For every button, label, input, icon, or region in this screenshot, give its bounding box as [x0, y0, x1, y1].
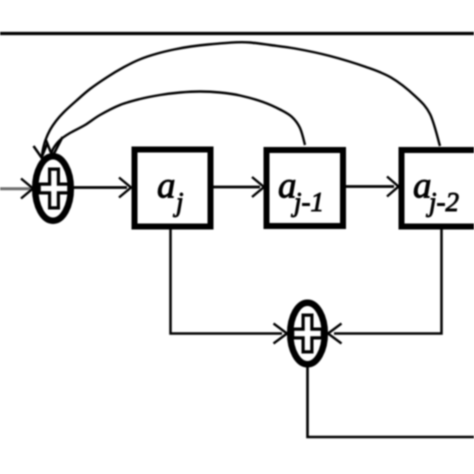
arrowhead into bottom adder left	[274, 324, 288, 344]
svg-text:j-1: j-1	[291, 187, 324, 217]
register box a_j-1	[267, 150, 344, 226]
arrowhead inner arc	[46, 137, 63, 157]
arrowhead input	[21, 179, 33, 199]
arrowhead	[252, 177, 264, 197]
wire: a_j-2 down and left to bottom adder	[334, 229, 442, 334]
svg-text:j-2: j-2	[426, 187, 459, 217]
svg-text:a: a	[157, 166, 176, 207]
wire: input line (gray)	[0, 187, 31, 190]
plus symbol U2	[291, 314, 324, 354]
wire: a_j down and right to bottom adder	[171, 229, 283, 334]
arrowhead into bottom adder right	[328, 324, 342, 344]
adder U1 (left XOR)	[35, 156, 71, 220]
arrowhead	[119, 178, 131, 198]
register box a_j-2 (clipped at right edge)	[402, 150, 474, 227]
arrowhead	[387, 177, 399, 197]
arrowhead outer arc	[34, 143, 48, 158]
top border line	[0, 32, 474, 35]
wire: adder to a_j	[74, 186, 127, 189]
wire: a_j-1 to a_j-2	[346, 185, 394, 188]
adder U2 (bottom XOR)	[290, 303, 325, 365]
wire: a_j to a_j-1	[213, 186, 260, 189]
wire: feedback arc from a_j-1 top to left adder	[51, 92, 305, 157]
plus symbol U1	[38, 168, 71, 210]
wire: feedback arc from a_j-2 top to left adder	[42, 42, 440, 157]
register box a_j	[135, 150, 211, 227]
wire: bottom adder output down and right	[308, 364, 474, 437]
